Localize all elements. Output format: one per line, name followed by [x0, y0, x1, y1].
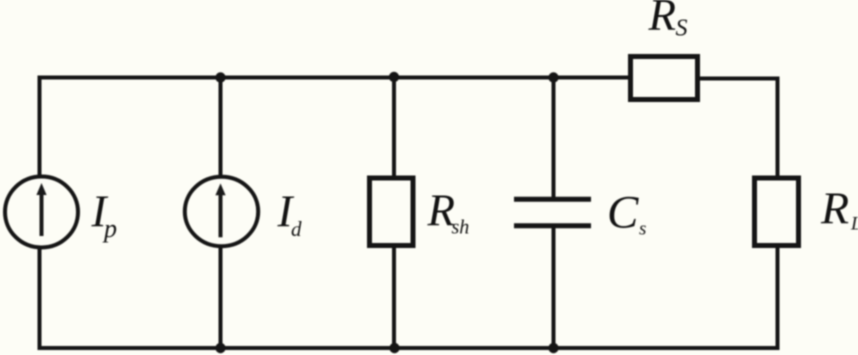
- junction node 2 (top, Rsh): [389, 72, 399, 82]
- svg-text:d: d: [291, 217, 302, 241]
- current source Id (circle): [185, 177, 258, 246]
- wire bottom segment: node 6 to bottom-right corner: [554, 346, 780, 350]
- svg-text:C: C: [607, 187, 639, 239]
- label Rsh: [427, 186, 470, 239]
- capacitor Cs plate top: [514, 197, 591, 202]
- label RL: [820, 183, 858, 235]
- label Cs: [607, 187, 646, 240]
- wire: right vertical, RL bottom to bottom-right corner: [776, 246, 780, 350]
- capacitor Cs plate bottom: [514, 223, 591, 228]
- wire: Cs branch vertical, top: [552, 78, 556, 199]
- junction node 4 (bottom, Id): [215, 343, 225, 353]
- wire: Cs branch vertical, bottom: [552, 227, 556, 348]
- svg-text:R: R: [648, 0, 677, 40]
- label Ip: [91, 187, 118, 244]
- svg-text:L: L: [850, 214, 858, 235]
- resistor RL (load body): [755, 178, 799, 246]
- wire top segment: node 2 to node 3: [394, 76, 554, 80]
- svg-text:p: p: [102, 214, 117, 243]
- resistor Rsh (body): [370, 178, 414, 246]
- label Id: [277, 187, 303, 242]
- wire bottom segment: node 4 to node 5: [221, 346, 395, 350]
- wire top segment: node 1 to node 2: [221, 76, 394, 80]
- svg-text:R: R: [820, 183, 849, 234]
- current source Id arrow: [215, 183, 225, 237]
- wire bottom segment: left corner to node 4: [38, 346, 222, 350]
- wire: left vertical, Ip bottom to bottom-left corner: [38, 247, 42, 350]
- wire top segment: node 3 to resistor RS: [554, 76, 631, 80]
- wire: RS right terminal to top-right corner: [698, 77, 780, 81]
- wire: Rsh branch vertical, top: [392, 78, 396, 179]
- wire: right vertical, corner down to RL top: [776, 77, 780, 178]
- resistor RS (body, series): [631, 57, 698, 100]
- wire: Id branch vertical, top: [219, 78, 223, 179]
- wire: Id branch vertical, bottom: [219, 246, 223, 348]
- label RS: [648, 0, 688, 42]
- wire top segment: left corner to node 1: [38, 76, 222, 80]
- junction node 6 (bottom, Cs): [548, 343, 558, 353]
- svg-text:sh: sh: [452, 217, 470, 239]
- current source Ip arrow: [36, 183, 46, 236]
- wire: left vertical, top corner down to Ip: [38, 76, 42, 178]
- wire bottom segment: node 5 to node 6: [395, 346, 554, 350]
- junction node 3 (top, Cs): [548, 72, 558, 82]
- svg-text:s: s: [639, 219, 646, 240]
- junction node 5 (bottom, Rsh): [389, 343, 399, 353]
- svg-text:S: S: [676, 16, 688, 42]
- wire: Rsh branch vertical, bottom: [392, 246, 396, 348]
- current source Ip (circle): [5, 177, 78, 248]
- junction node 1 (top, Id): [215, 72, 225, 82]
